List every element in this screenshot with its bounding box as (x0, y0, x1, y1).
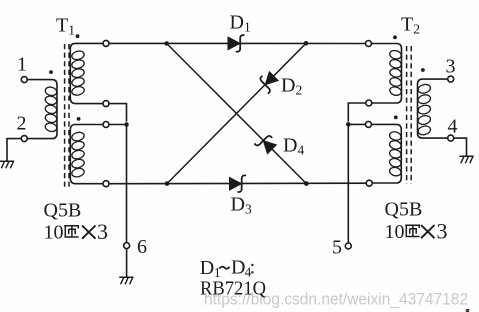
T2 primary-bottom lower tap circle (366, 180, 372, 186)
polarity dot T1 primary (49, 70, 53, 74)
T1 primary winding (terminals 1-2) spine and leads (27, 80, 57, 139)
polarity dot T2 primary-top (393, 35, 397, 39)
svg-text:Q5B: Q5B (385, 199, 423, 221)
svg-text:Q5B: Q5B (44, 200, 82, 222)
polarity dot T1 secondary-bottom (77, 117, 81, 121)
T2 primary bottom winding spine and leads (371, 124, 401, 183)
terminal 1 circle (21, 77, 27, 83)
T1 secondary top winding loops (71, 50, 85, 97)
terminal 5 circle (345, 243, 351, 249)
svg-text:10: 10 (44, 222, 64, 244)
T2 primary top winding loops (389, 49, 402, 96)
junction node T2 center tap (346, 122, 351, 127)
ground at terminal 4 (460, 156, 473, 163)
T1 secondary-bottom lower tap circle (103, 181, 109, 187)
transformer T2 core (dashed lines) (407, 46, 412, 184)
wire: T1 tap link from mid circle to junction (109, 104, 127, 125)
svg-text:D2: D2 (281, 75, 302, 98)
junction node T1 center tap (124, 122, 129, 127)
svg-text:D: D (231, 257, 245, 279)
wire: T1 center-tap vertical to terminal 6 (126, 125, 128, 243)
svg-text:5: 5 (332, 237, 342, 259)
T1 secondary-top lower tap circle (103, 101, 109, 107)
glyph 匝 left (64, 226, 78, 237)
wire: diagonal from bottom-left node to top-right node (through D2) (167, 43, 306, 183)
terminal 6 circle (124, 243, 130, 249)
diode D2 (257, 70, 280, 93)
T2 primary-top upper tap circle (366, 41, 372, 47)
polarity dot T2 secondary (421, 68, 425, 72)
polarity dot T1 secondary-top (76, 34, 80, 38)
svg-text:4: 4 (448, 116, 458, 138)
ground at terminal 2 (1, 161, 14, 168)
svg-text:3: 3 (437, 219, 448, 244)
T2 primary-top lower tap circle (366, 100, 372, 106)
svg-text::: : (250, 257, 256, 279)
glyph 匝 right (405, 225, 419, 236)
svg-text:3: 3 (97, 219, 108, 244)
svg-text:10: 10 (385, 221, 405, 243)
T2 primary top winding spine and leads (371, 44, 401, 104)
transformer T1 core (dashed lines) (65, 44, 69, 187)
wire: diagonal from top-left node to bottom-right node (through D4) (167, 44, 307, 184)
svg-text:3: 3 (446, 56, 456, 78)
diode D4 (255, 132, 278, 155)
T1 secondary-top upper tap circle (103, 40, 109, 46)
svg-text:2: 2 (17, 113, 27, 135)
svg-text:T2: T2 (401, 14, 420, 37)
wire: bottom bus from T1 secondary-bottom to T2 primary-bottom (109, 182, 367, 185)
multiplier ×3 left (82, 226, 96, 239)
wire: terminal 2 to ground (7, 139, 22, 161)
T1 secondary bottom winding spine and leads (70, 125, 103, 184)
ground under terminal 6 (120, 277, 133, 284)
stray mark bottom right (466, 309, 469, 312)
svg-text:D1: D1 (230, 12, 251, 35)
T1 secondary top winding spine and leads (70, 43, 103, 103)
T1 secondary bottom winding loops (71, 131, 85, 178)
wire: top bus from T1 secondary-top to T2 primary-top (109, 42, 366, 44)
junction node bottom-right of bridge (304, 181, 309, 186)
terminal 2 circle (21, 136, 27, 142)
T1 secondary-bottom upper tap circle (103, 122, 109, 128)
svg-text:D: D (200, 257, 214, 279)
multiplier ×3 right (421, 225, 435, 238)
wire: terminal 6 to ground (126, 248, 128, 277)
svg-text:D3: D3 (231, 194, 252, 217)
T2 secondary winding loops (417, 83, 431, 136)
polarity dot T2 primary-bottom (394, 116, 398, 120)
T2 secondary winding (terminals 3-4) spine and leads (418, 79, 448, 138)
wire: terminal 4 to ground (454, 138, 467, 156)
svg-text:T1: T1 (56, 15, 75, 38)
svg-text:D4: D4 (283, 135, 304, 158)
wire: T2 center-tap vertical to terminal 5 (347, 124, 349, 243)
junction node top-left of bridge (164, 41, 169, 46)
terminal 4 circle (448, 135, 454, 141)
svg-text:1: 1 (17, 54, 27, 76)
T1 primary winding loops (44, 86, 57, 133)
junction node top-right of bridge (304, 41, 309, 46)
T2 primary-bottom upper tap circle (366, 121, 372, 127)
diode D1 (228, 35, 244, 52)
svg-text:RB721Q: RB721Q (200, 278, 267, 300)
terminal 3 circle (448, 76, 454, 82)
wire: T2 tap link from mid circle to junction (348, 103, 366, 124)
svg-text:6: 6 (137, 236, 147, 258)
T2 primary bottom winding loops (389, 131, 402, 177)
junction node bottom-left of bridge (165, 181, 170, 186)
diode D3 (230, 175, 246, 192)
